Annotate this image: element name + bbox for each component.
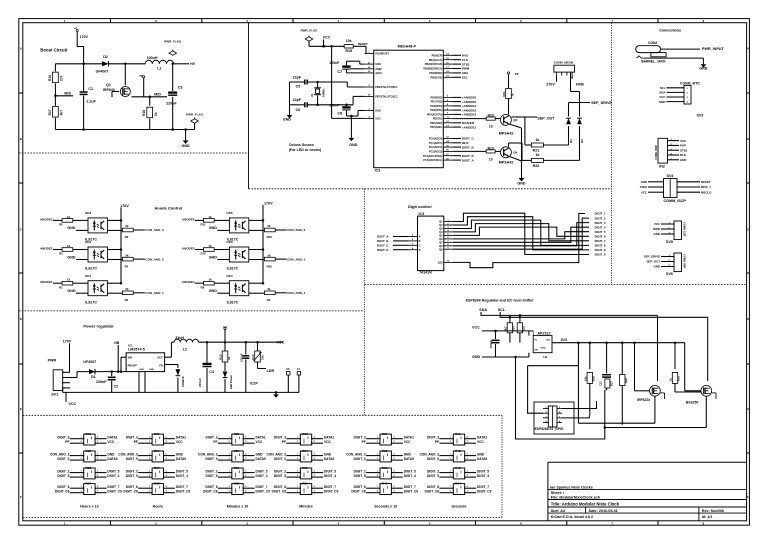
svg-text:DIGIT_6: DIGIT_6	[427, 485, 439, 489]
wire Q1 gate stub	[112, 91, 119, 93]
capacitor C1	[83, 64, 85, 91]
svg-text:1k: 1k	[208, 244, 212, 248]
diode D3 catch	[176, 369, 181, 375]
svg-text:OK3: OK3	[85, 211, 92, 215]
svg-text:F: F	[20, 495, 22, 499]
ground mcu drivers	[521, 176, 523, 178]
svg-text:1k: 1k	[67, 244, 71, 248]
svg-text:5: 5	[467, 475, 468, 477]
svg-text:6: 6	[393, 470, 394, 472]
svg-text:IRF9Z24: IRF9Z24	[637, 398, 650, 402]
svg-text:PB2(SS/OC1B): PB2(SS/OC1B)	[425, 63, 443, 66]
svg-text:2: 2	[149, 441, 150, 443]
wire Q1 source to R18	[127, 96, 129, 99]
svg-text:GND: GND	[67, 226, 76, 230]
svg-text:1k: 1k	[227, 356, 231, 360]
svg-text:DIGIT_D: DIGIT_D	[462, 154, 475, 158]
resistor R14	[257, 342, 259, 351]
svg-text:ANODE6: ANODE6	[182, 217, 195, 221]
wire digit output 5	[453, 227, 589, 236]
svg-text:R13: R13	[219, 354, 223, 360]
wire jack gnd	[644, 57, 703, 59]
svg-text:C3: C3	[178, 85, 183, 89]
resistor R2	[122, 291, 133, 295]
svg-text:170V: 170V	[80, 35, 89, 39]
svg-text:2: 2	[450, 475, 451, 477]
svg-text:6: 6	[467, 470, 468, 472]
dual transistor R42	[453, 451, 464, 462]
ground crystal	[289, 113, 291, 115]
svg-text:GND: GND	[477, 452, 485, 456]
capacitor C2	[111, 372, 113, 377]
svg-text:D2: D2	[103, 55, 108, 59]
svg-text:PB6/XTAL1/TOSC1: PB6/XTAL1/TOSC1	[375, 86, 398, 89]
svg-text:PWR: PWR	[48, 359, 57, 363]
svg-text:SEP_OUT: SEP_OUT	[537, 116, 555, 120]
svg-text:6: 6	[166, 470, 167, 472]
svg-text:DIGIT_5: DIGIT_5	[205, 474, 217, 478]
resistor R3	[53, 249, 63, 251]
optocoupler OK2	[88, 247, 107, 262]
svg-text:DIGIT_2: DIGIT_2	[354, 469, 366, 473]
wire 270V stub	[556, 76, 558, 82]
svg-text:DIGIT_C9: DIGIT_C9	[256, 490, 271, 494]
svg-text:Minutes x 10: Minutes x 10	[227, 504, 249, 508]
mcu left pin stubs	[365, 53, 374, 55]
svg-text:DIGIT_4: DIGIT_4	[324, 474, 336, 478]
dual transistor R44	[453, 484, 464, 495]
wire digit output 1	[453, 213, 589, 254]
svg-text:DIGIT_1: DIGIT_1	[595, 212, 606, 216]
mosfet T1	[650, 385, 661, 396]
svg-text:GND: GND	[181, 144, 190, 148]
svg-text:R41: R41	[455, 432, 461, 436]
dual transistor R40	[380, 484, 391, 495]
wire SCL drop to FET2	[707, 317, 709, 381]
svg-text:DIGIT_3: DIGIT_3	[595, 221, 606, 225]
svg-text:PXP: PXP	[680, 144, 686, 148]
svg-text:OK6: OK6	[226, 211, 233, 215]
svg-text:OUT: OUT	[546, 340, 551, 342]
svg-text:PWR_INPUT: PWR_INPUT	[702, 47, 724, 51]
svg-text:DIGIT_5: DIGIT_5	[427, 474, 439, 478]
dual transistor R30	[232, 451, 243, 462]
wire digit output 4	[453, 224, 589, 241]
dual transistor R31	[232, 468, 243, 479]
svg-text:DIGIT_3: DIGIT_3	[274, 436, 286, 440]
svg-text:DIGIT_6: DIGIT_6	[354, 485, 366, 489]
svg-text:1: 1	[81, 470, 82, 472]
wire GND input OK2	[76, 259, 88, 261]
svg-text:R10: R10	[201, 252, 207, 256]
svg-text:LM2574-5: LM2574-5	[128, 348, 145, 352]
svg-text:4k7: 4k7	[504, 326, 508, 331]
svg-text:U1: U1	[223, 325, 227, 329]
svg-text:ANODE3: ANODE3	[40, 217, 53, 221]
svg-text:GND: GND	[699, 67, 708, 71]
svg-text:1: 1	[229, 486, 230, 488]
section divider mcu bottom	[249, 188, 612, 190]
svg-text:R27: R27	[154, 466, 160, 470]
svg-text:Q10: Q10	[438, 262, 443, 265]
wire SEP_DRIVE	[568, 103, 570, 117]
svg-text:DATA9: DATA9	[477, 457, 487, 461]
svg-text:DIGIT_5: DIGIT_5	[354, 474, 366, 478]
svg-text:R33: R33	[302, 432, 308, 436]
dual transistor R37	[380, 434, 391, 445]
wire esp loop	[516, 357, 605, 439]
svg-text:2: 2	[149, 475, 150, 477]
inductor L1	[145, 60, 173, 64]
svg-text:MOS_1: MOS_1	[701, 185, 711, 189]
svg-text:VCC: VCC	[680, 139, 687, 143]
svg-text:VCC: VCC	[69, 402, 77, 406]
svg-text:1: 1	[81, 453, 82, 455]
svg-text:1: 1	[149, 453, 150, 455]
connector LDR header	[674, 221, 682, 240]
svg-text:2: 2	[229, 458, 230, 460]
svg-text:BARREL_JACK: BARREL_JACK	[641, 59, 666, 63]
dual transistor R29	[232, 434, 243, 445]
svg-text:R21: R21	[533, 148, 540, 152]
svg-text:DIGIT_C9: DIGIT_C9	[477, 490, 492, 494]
ground mcu	[350, 136, 352, 138]
svg-text:STB1: STB1	[680, 148, 688, 152]
svg-text:GND: GND	[517, 181, 526, 185]
svg-text:6: 6	[97, 453, 98, 455]
svg-text:1: 1	[377, 486, 378, 488]
svg-text:DIGIT_3: DIGIT_3	[57, 436, 69, 440]
resistor R19	[452, 150, 486, 152]
wires IC1 gnd pins	[138, 372, 140, 393]
svg-text:5: 5	[467, 458, 468, 460]
svg-text:74141N: 74141N	[419, 271, 432, 275]
capacitor C5	[304, 80, 306, 85]
svg-text:SCL: SCL	[498, 308, 506, 312]
svg-text:CON_ANO_3: CON_ANO_3	[346, 452, 366, 456]
svg-text:2: 2	[229, 491, 230, 493]
svg-text:A7: A7	[297, 367, 301, 371]
svg-text:Date: 2016-05-31: Date: 2016-05-31	[589, 509, 618, 513]
section divider vertical boost/mcu	[248, 23, 250, 189]
dual transistor R27	[152, 468, 163, 479]
svg-text:10k: 10k	[346, 39, 352, 43]
svg-text:IC3: IC3	[375, 169, 381, 173]
svg-text:2: 2	[687, 92, 689, 94]
svg-text:1: 1	[377, 453, 378, 455]
resistor R9	[264, 291, 275, 295]
svg-text:PB5(SCK): PB5(SCK)	[430, 76, 442, 79]
svg-text:5: 5	[97, 475, 98, 477]
svg-text:DIGIT_5: DIGIT_5	[256, 469, 268, 473]
optocoupler OK1	[88, 281, 107, 296]
svg-text:DIGIT_C8: DIGIT_C8	[425, 490, 440, 494]
svg-text:DIGIT_4: DIGIT_4	[176, 474, 188, 478]
svg-text:DIGIT_A: DIGIT_A	[377, 235, 389, 239]
svg-text:D1: D1	[91, 375, 96, 379]
wire esp gpio links	[562, 401, 597, 409]
svg-text:DIGIT_C8: DIGIT_C8	[351, 490, 366, 494]
svg-text:R8: R8	[201, 285, 205, 289]
svg-text:5: 5	[467, 491, 468, 493]
svg-text:PD2(INT0): PD2(INT0)	[430, 105, 442, 108]
svg-text:1: 1	[377, 437, 378, 439]
svg-text:SV6: SV6	[666, 272, 673, 276]
resistor R28	[620, 375, 625, 386]
svg-text:3: 3	[687, 97, 689, 99]
svg-text:1: 1	[450, 486, 451, 488]
svg-text:DIGIT_7: DIGIT_7	[595, 239, 606, 243]
svg-text:DIGIT_D: DIGIT_D	[377, 248, 388, 252]
svg-text:5: 5	[314, 458, 315, 460]
svg-text:B: B	[20, 137, 22, 141]
svg-text:SV1: SV1	[51, 392, 58, 396]
wire HVB stub	[571, 76, 573, 80]
svg-text:220uF: 220uF	[198, 378, 202, 387]
svg-text:B: B	[419, 240, 421, 243]
svg-text:DATA9: DATA9	[324, 457, 334, 461]
svg-text:2: 2	[81, 475, 82, 477]
svg-text:2: 2	[229, 475, 230, 477]
svg-text:AVCC: AVCC	[375, 72, 382, 75]
svg-text:DATA9: DATA9	[107, 457, 117, 461]
svg-text:AREF: AREF	[375, 68, 382, 71]
svg-text:DATA9: DATA9	[404, 457, 414, 461]
resistor R21	[525, 144, 531, 146]
wire C3 branch	[172, 64, 174, 91]
svg-text:M/S: M/S	[64, 92, 71, 96]
svg-text:CON2: CON2	[648, 41, 657, 45]
wire VCC down to chip	[331, 46, 333, 118]
svg-text:VCC: VCC	[375, 118, 380, 121]
wire collector to rail OK3	[107, 219, 121, 221]
capacitor C7	[346, 61, 348, 65]
ground power reg	[275, 392, 277, 394]
svg-text:5: 5	[97, 441, 98, 443]
svg-text:4: 4	[687, 101, 689, 104]
svg-text:R9: R9	[267, 298, 271, 302]
svg-text:DIGIT_4: DIGIT_4	[107, 474, 119, 478]
svg-text:1k: 1k	[535, 138, 540, 142]
svg-text:SEP_OUT: SEP_OUT	[647, 260, 661, 264]
svg-text:DIGIT_5: DIGIT_5	[324, 469, 336, 473]
svg-text:5: 5	[245, 475, 246, 477]
svg-text:PB7/XTAL2/TOSC2: PB7/XTAL2/TOSC2	[375, 96, 398, 99]
svg-text:R24: R24	[86, 482, 92, 486]
svg-text:RESET: RESET	[358, 42, 368, 46]
svg-text:COMM_ISCP: COMM_ISCP	[664, 199, 687, 203]
svg-text:220uF: 220uF	[166, 102, 177, 106]
connector SEP header	[674, 253, 682, 272]
ground jack	[702, 62, 704, 64]
svg-text:IC4: IC4	[419, 212, 426, 216]
svg-text:SDA: SDA	[479, 308, 487, 312]
testpoint A7	[297, 372, 300, 375]
power flag PWR_FLAG1	[169, 51, 177, 55]
svg-text:DIGIT_6: DIGIT_6	[595, 235, 606, 239]
svg-text:1k: 1k	[154, 112, 158, 116]
svg-text:VCC: VCC	[477, 440, 484, 444]
wire SDA drop to FET1	[657, 315, 659, 381]
svg-text:PF: PF	[282, 440, 286, 444]
wire emitter OK4	[249, 292, 265, 294]
svg-text:C5: C5	[296, 85, 301, 89]
dual transistor R26	[152, 451, 163, 462]
resistor R11	[195, 219, 204, 221]
svg-text:ANODE2: ANODE2	[40, 246, 53, 250]
svg-text:SV3: SV3	[697, 114, 704, 118]
svg-text:DIGIT_C9: DIGIT_C9	[176, 490, 191, 494]
section divider anode bottom	[19, 310, 365, 312]
svg-text:R38: R38	[382, 449, 388, 453]
svg-text:1: 1	[297, 486, 298, 488]
svg-text:UF4007: UF4007	[83, 360, 96, 364]
svg-text:DIGIT_0: DIGIT_0	[205, 457, 217, 461]
svg-text:DIGIT_4: DIGIT_4	[404, 474, 416, 478]
esp module box	[534, 402, 574, 434]
svg-text:STB1: STB1	[462, 62, 470, 66]
wire XTAL1	[346, 82, 348, 87]
svg-text:DIGIT_B: DIGIT_B	[377, 239, 388, 243]
svg-text:2: 2	[149, 491, 150, 493]
resistor R10	[195, 249, 204, 251]
svg-text:DIGIT_4: DIGIT_4	[595, 225, 606, 229]
section divider connections left	[611, 23, 613, 285]
svg-text:R44: R44	[455, 482, 461, 486]
wire fet2 source	[685, 390, 701, 392]
svg-text:R34: R34	[302, 449, 308, 453]
svg-text:CON_ANO_3: CON_ANO_3	[198, 452, 218, 456]
svg-text:C8: C8	[337, 112, 342, 116]
svg-text:10: 10	[489, 125, 493, 129]
wire bottom rail boost	[55, 129, 194, 131]
svg-text:OK4: OK4	[226, 274, 233, 278]
svg-text:3k: 3k	[125, 287, 129, 291]
transistor Q4	[500, 147, 511, 158]
svg-text:2: 2	[450, 441, 451, 443]
svg-text:MEGA48-P: MEGA48-P	[398, 45, 417, 49]
svg-text:R32: R32	[234, 482, 240, 486]
svg-text:D: D	[747, 317, 749, 321]
resistor R15	[344, 45, 353, 48]
svg-text:DIGIT_5: DIGIT_5	[107, 469, 119, 473]
svg-text:SCL: SCL	[462, 76, 468, 80]
svg-text:DIGIT_7: DIGIT_7	[107, 485, 119, 489]
svg-text:1k: 1k	[208, 215, 212, 219]
svg-text:3k: 3k	[267, 287, 271, 291]
svg-text:DIGIT_C: DIGIT_C	[377, 244, 389, 248]
resistor R8	[195, 282, 204, 284]
svg-text:CONN_SEP: CONN_SEP	[683, 254, 687, 269]
svg-text:1: 1	[81, 486, 82, 488]
svg-text:R15: R15	[345, 49, 352, 53]
svg-text:SEP_DRIVE: SEP_DRIVE	[644, 255, 660, 259]
svg-text:2: 2	[297, 475, 298, 477]
svg-text:R17: R17	[48, 109, 52, 115]
svg-text:GND: GND	[67, 255, 76, 259]
wire SDA line	[481, 312, 658, 315]
svg-text:C6: C6	[296, 108, 301, 112]
wire Q4 collector	[508, 143, 510, 147]
svg-text:DATA9: DATA9	[176, 457, 186, 461]
svg-text:1: 1	[149, 470, 150, 472]
svg-text:PF: PF	[65, 440, 69, 444]
wire IC1 in pin	[121, 356, 126, 358]
svg-text:100uH: 100uH	[147, 56, 158, 60]
dual transistor R38	[380, 451, 391, 462]
svg-text:2: 2	[450, 458, 451, 460]
svg-text:10: 10	[489, 157, 493, 161]
svg-text:6: 6	[97, 470, 98, 472]
ground boost	[185, 130, 187, 139]
svg-text:6: 6	[314, 486, 315, 488]
svg-text:VCC: VCC	[641, 190, 648, 194]
svg-text:DATA9: DATA9	[256, 457, 266, 461]
svg-text:Title: Arduino Modular Nixie C: Title: Arduino Modular Nixie Clock	[551, 501, 620, 506]
svg-text:5: 5	[97, 491, 98, 493]
capacitor C10	[495, 331, 497, 339]
connector CONN_NEON	[554, 65, 575, 72]
wire digit output 7	[453, 227, 589, 242]
svg-text:Q1: Q1	[106, 83, 111, 87]
dual transistor R34	[300, 451, 311, 462]
svg-text:Anode Control: Anode Control	[154, 205, 182, 210]
wire emitters to ground	[510, 124, 522, 128]
svg-text:2: 2	[377, 475, 378, 477]
svg-text:DIGIT_8: DIGIT_8	[595, 244, 606, 248]
svg-text:A: A	[20, 47, 22, 51]
svg-text:1N5819: 1N5819	[181, 376, 185, 387]
svg-text:LDR: LDR	[267, 369, 275, 373]
wire crystal gnd	[289, 82, 291, 113]
svg-text:3V3: 3V3	[561, 338, 568, 342]
wire neon feed	[579, 92, 581, 117]
connector IN2 display	[658, 138, 668, 163]
svg-text:VCC: VCC	[404, 440, 411, 444]
svg-text:MSCLD: MSCLD	[701, 190, 711, 194]
svg-text:UF4007: UF4007	[96, 70, 109, 74]
wire GND input OK6	[217, 229, 229, 231]
regulator IC1 body	[126, 353, 165, 372]
svg-text:GND: GND	[256, 452, 264, 456]
dual transistor R21	[84, 434, 95, 445]
wire 3V3 rail	[552, 342, 685, 344]
svg-text:ANODE5: ANODE5	[182, 246, 195, 250]
dual transistor R41	[453, 434, 464, 445]
svg-text:Q4: Q4	[513, 150, 517, 154]
svg-text:CON_ANO_5: CON_ANO_5	[287, 257, 306, 261]
svg-text:OK2: OK2	[85, 240, 92, 244]
svg-text:2: 2	[377, 491, 378, 493]
svg-text:GND: GND	[149, 369, 154, 371]
wire IC1 vin	[125, 356, 127, 358]
testpoint TP1	[143, 78, 145, 81]
svg-text:3k: 3k	[267, 253, 271, 257]
wire 170V to top rail	[77, 34, 83, 64]
capacitor C9 bypass	[245, 342, 247, 354]
wire vcc rail power	[199, 341, 283, 343]
svg-text:170V: 170V	[264, 201, 273, 205]
diode D8	[568, 126, 570, 145]
svg-text:DIGIT_2: DIGIT_2	[126, 469, 138, 473]
wire VCC label stub	[65, 392, 67, 402]
dual transistor R25	[152, 434, 163, 445]
svg-text:Q9: Q9	[439, 248, 443, 251]
svg-text:VIB: VIB	[114, 341, 120, 345]
svg-text:C11: C11	[599, 381, 603, 386]
dual transistor R43	[453, 468, 464, 479]
svg-text:6: 6	[393, 453, 394, 455]
